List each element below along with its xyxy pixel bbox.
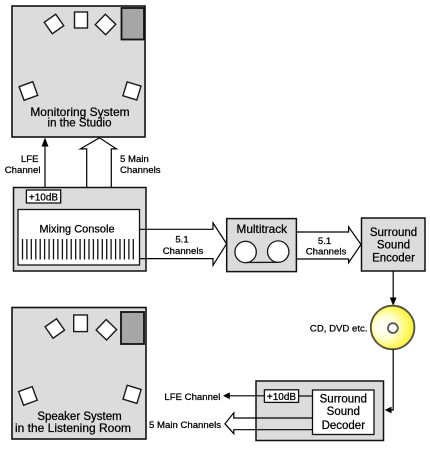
svg-text:CD, DVD etc.: CD, DVD etc. (310, 324, 368, 335)
tape line (246, 261, 278, 263)
label: Speaker System in the Listening Room (15, 411, 131, 435)
wide arrow: 5.1 Channels multitrack to encoder (296, 227, 361, 263)
wire: CD to decoder vertical (391, 349, 394, 410)
svg-text:Decoder: Decoder (322, 420, 366, 432)
label: 5.1 Channels (left) (163, 235, 204, 257)
speaker front-right (listening) (96, 320, 117, 341)
reel right (268, 241, 289, 262)
room box: Speaker System in the Listening Room (12, 308, 146, 440)
speaker front-left (listening) (45, 319, 64, 338)
wire: +10dB to decoder inner (299, 395, 313, 397)
box: Mixing Console outer (14, 188, 147, 272)
svg-text:+10dB: +10dB (267, 392, 297, 403)
CD disc (371, 306, 415, 350)
arrowhead LFE left (223, 392, 230, 399)
label: Monitoring System in the Studio (30, 105, 129, 130)
svg-text:Multitrack: Multitrack (237, 222, 288, 236)
box: +10dB (console) (26, 190, 60, 203)
reel left (235, 241, 256, 262)
wire: LFE below +10dB box (44, 203, 46, 210)
room box: Monitoring System in the Studio (12, 6, 145, 137)
svg-text:Channels: Channels (306, 247, 347, 258)
svg-text:in the Listening Room: in the Listening Room (15, 421, 131, 435)
speaker rear-left (studio) (19, 82, 38, 101)
speaker rear-right (listening) (123, 385, 141, 403)
subwoofer (studio) (122, 8, 145, 40)
svg-text:LFE: LFE (21, 154, 39, 165)
speaker front-left (studio) (44, 14, 63, 33)
speaker rear-right (studio) (123, 82, 141, 100)
speaker rear-left (listening) (19, 387, 38, 406)
svg-text:Sound: Sound (327, 406, 360, 418)
wire: LFE channel to listening room (230, 395, 265, 397)
subwoofer (listening) (121, 312, 144, 344)
speaker center (studio) (75, 12, 88, 28)
label: LFE Channel (5, 154, 41, 176)
svg-text:Mixing Console: Mixing Console (39, 223, 114, 235)
box: Surround Sound Decoder outer (256, 381, 384, 441)
box: Surround Sound Decoder inner (313, 390, 375, 435)
svg-text:+10dB: +10dB (29, 192, 59, 203)
box: +10dB (decoder) (264, 390, 298, 403)
svg-text:in the Studio: in the Studio (48, 117, 112, 129)
arrowhead left into decoder (385, 407, 392, 414)
label: 5.1 Channels (right) (306, 236, 347, 258)
faders (23, 239, 134, 260)
label: Surround Sound Decoder (320, 393, 367, 432)
wide arrow: 5 Main Channels to listening room (225, 413, 313, 434)
wire: encoder to CD (392, 271, 394, 299)
svg-text:Encoder: Encoder (372, 253, 415, 265)
svg-text:Channel: Channel (5, 165, 41, 176)
svg-text:Sound: Sound (377, 240, 410, 252)
arrowhead LFE up (42, 138, 49, 147)
label: Surround Sound Encoder (370, 227, 417, 265)
svg-text:LFE Channel: LFE Channel (164, 392, 220, 403)
CD hole (388, 323, 398, 333)
wire: LFE channel up-arrow line (44, 146, 46, 190)
speaker front-right (studio) (95, 14, 116, 35)
svg-text:5.1: 5.1 (318, 236, 331, 247)
wide arrow: 5 Main Channels up (80, 138, 116, 210)
arrowhead down to CD (390, 298, 397, 306)
box: Surround Sound Encoder (362, 218, 426, 271)
svg-text:5 Main Channels: 5 Main Channels (149, 420, 221, 431)
speaker center (listening) (74, 315, 88, 332)
svg-text:Channels: Channels (120, 165, 161, 176)
svg-text:Surround: Surround (320, 393, 367, 405)
box: Multitrack (227, 219, 297, 272)
box: Mixing Console inner (18, 210, 140, 266)
label: 5 Main Channels (120, 154, 161, 176)
svg-text:5 Main: 5 Main (120, 154, 149, 165)
svg-text:Surround: Surround (370, 227, 417, 239)
svg-text:5.1: 5.1 (175, 235, 188, 246)
svg-text:Channels: Channels (163, 246, 204, 257)
wide arrow: 5.1 Channels console to multitrack (140, 223, 227, 265)
